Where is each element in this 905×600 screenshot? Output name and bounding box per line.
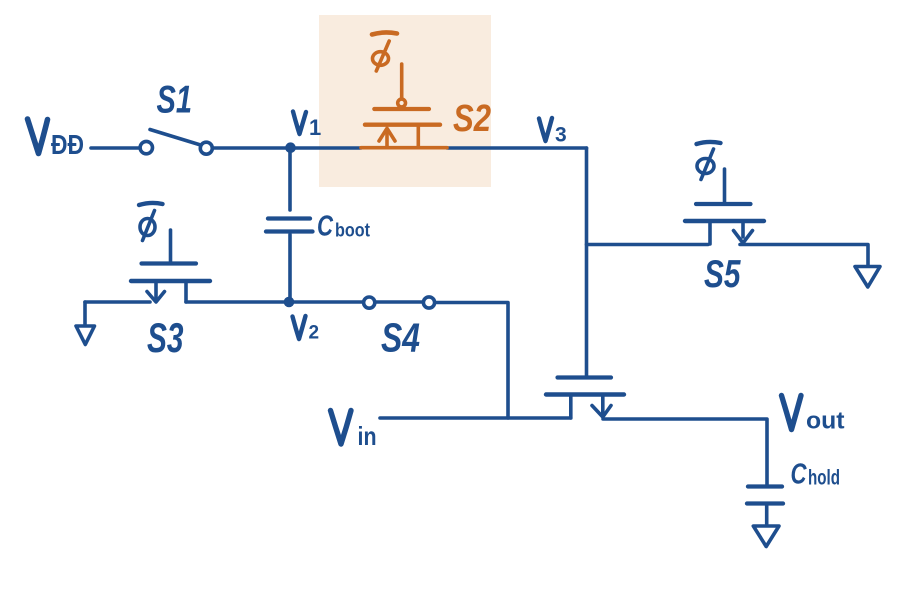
S2 source leg with arrow [385,129,389,147]
transistor S5 [723,169,727,203]
label node V1: letter V [293,112,306,135]
svg-text:S3: S3 [147,314,184,361]
phi-bar gate label of S5 [697,142,721,144]
S2 channel bar [365,122,440,126]
transistor S2 (orange, highlighted) [361,32,447,147]
wire V3 branch to S5 source [587,243,709,247]
wire VDD to S1 [91,146,139,150]
svg-text:out: out [806,408,845,435]
S2 source-drain wire segment [361,146,447,150]
label VDD: letter V [28,119,48,154]
S2 drain leg [416,127,420,148]
wire node V1 down to Cboot [288,152,292,210]
S2 PMOS gate bubble [398,99,406,107]
label Vin: letter V [331,411,352,445]
S2 gate bar [374,107,429,111]
svg-text:1: 1 [309,115,321,140]
wire node V3 down (gate feed of sampling switch) [585,148,589,376]
ground (right, at S5) [855,267,880,288]
wire ground to S3 source [85,300,150,304]
phi-bar gate label of S2 [372,32,397,34]
svg-text:C: C [317,211,334,243]
wire S2 drain to node V3 [447,146,587,150]
svg-text:2: 2 [309,323,320,344]
label node V3: letter V [539,118,552,141]
svg-text:in: in [358,421,377,451]
svg-text:S5: S5 [704,253,742,296]
wire Cboot to node V2 [288,235,292,301]
label node V2: letter V [293,316,306,339]
ground (left, at S3) [83,302,87,324]
phi-bar gate label of S3 [139,203,163,205]
wire S3 drain to node V2 and S4 [186,300,362,304]
svg-text:S2: S2 [453,98,491,140]
svg-text:S4: S4 [381,315,420,361]
wire sampling transistor drain to Vout and Chold [603,419,767,485]
svg-text:boot: boot [335,221,371,242]
transistor S3 [169,230,173,262]
svg-text:S1: S1 [157,79,193,122]
svg-text:hold: hold [808,467,840,490]
node V1 junction dot [285,142,296,153]
switch S4 (closed switch, two contact circles) [364,297,375,308]
wire S1 to node V1 [213,146,362,150]
label Vout: letter V [782,396,802,430]
capacitor Cboot [268,216,310,220]
svg-text:C: C [791,459,808,491]
sampling transistor (bottom switch) [558,375,612,379]
ground (bottom, at Chold) [753,526,779,547]
node V2 junction dot [284,297,295,308]
highlight box around transistor S2 [319,15,491,187]
capacitor Chold [748,484,782,488]
S2 gate wire [400,64,404,97]
svg-text:3: 3 [555,124,567,147]
wire S4 right, corner down to Vin line [437,303,509,419]
svg-text:ĐĐ: ĐĐ [51,129,84,160]
wire S5 drain to right ground [740,245,868,266]
switch S1 (open switch with two contact circles and blade) [140,141,152,153]
wire Vin to sampling transistor source [380,416,571,420]
